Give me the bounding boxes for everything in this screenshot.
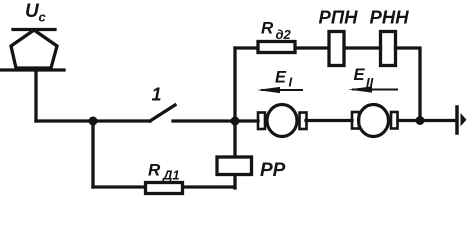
svg-text:Д1: Д1 [162,168,180,183]
wire bottom left segment [93,185,144,188]
machine armature EI [258,105,307,137]
terminal connector [457,107,467,133]
wire rail left segment [36,119,150,122]
wire node B up to top branch [233,48,236,121]
svg-text:1: 1 [152,85,162,105]
svg-text:РПН: РПН [319,7,359,28]
svg-text:R: R [261,19,274,38]
wire РР branch vertical [233,121,236,188]
svg-text:I: I [289,75,293,90]
wire RД1 to РР branch [184,185,235,188]
svg-text:РНН: РНН [370,7,410,28]
node B junction [231,117,240,126]
node C junction [416,116,425,125]
arrow EI [257,87,302,93]
relay coil РР [217,157,252,175]
wire node A down [91,121,94,187]
wire node B to machine EI [235,119,258,122]
label EII [354,66,374,90]
svg-text:РР: РР [260,160,286,181]
wire supply down to rail [34,70,37,121]
svg-text:E: E [354,66,366,84]
wire between machines [306,119,352,122]
svg-text:с: с [39,10,47,25]
label EI [275,69,293,90]
wire РПН to РНН [345,46,378,49]
node A junction [89,117,98,126]
switch 1 [150,105,175,121]
label RД2 [261,19,292,43]
wire machine EII to terminal [398,119,456,122]
relay coil РНН [381,32,396,66]
wire RД2 to РПН [297,46,327,49]
relay coil РПН [329,32,344,66]
label RД1 [148,161,180,183]
svg-text:R: R [148,161,161,180]
svg-text:E: E [275,69,287,87]
wire top branch to RД2 [235,46,256,49]
arrow EII [348,86,397,92]
svg-text:д2: д2 [276,27,292,42]
label Uc [25,1,47,25]
supply symbol Uc (plug) [0,30,64,71]
resistor RД1 [146,183,183,194]
resistor RД2 [258,42,295,53]
wire РНН to right corner down to node C [397,48,420,120]
wire switch to node B [173,119,235,122]
machine armature EII [352,105,398,137]
